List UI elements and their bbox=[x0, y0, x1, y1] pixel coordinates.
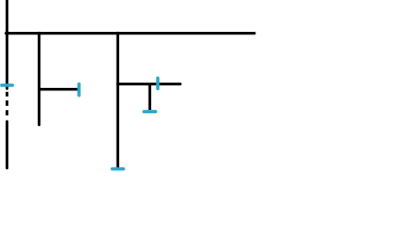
wire: branch B vertical bbox=[116, 33, 120, 167]
wire: stub A horizontal bbox=[39, 87, 78, 91]
wire: left vertical dashed continuation bbox=[5, 92, 9, 116]
terminal marker at end of stub A bbox=[77, 84, 82, 95]
wire: branch A vertical bbox=[37, 33, 41, 125]
wire: stub B horizontal bbox=[118, 82, 180, 86]
terminal marker under branch B bbox=[112, 167, 123, 172]
wire: left vertical bus upper segment bbox=[5, 0, 9, 89]
wire: drop vertical from stub B bbox=[148, 84, 152, 110]
terminal marker crossing left bus bbox=[2, 83, 13, 88]
wire: left vertical bus lower segment bbox=[5, 122, 9, 169]
terminal marker under drop vertical bbox=[144, 109, 156, 114]
terminal marker crossing stub B bbox=[156, 78, 161, 89]
wire: top horizontal bus bbox=[6, 31, 254, 35]
